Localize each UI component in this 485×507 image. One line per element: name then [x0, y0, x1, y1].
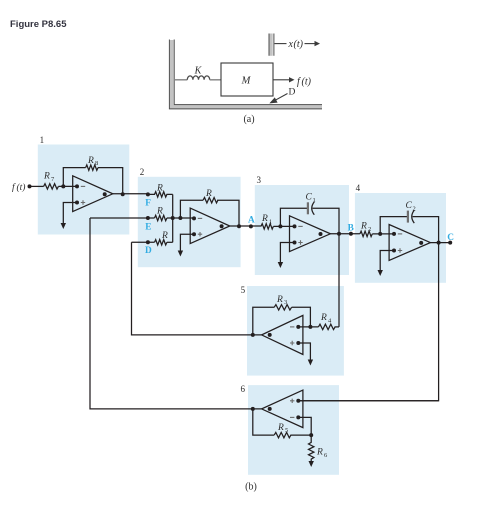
- wire R4 to node B vertical: [335, 326, 340, 328]
- svg-text:R: R: [161, 231, 168, 241]
- svg-text:B: B: [348, 224, 354, 234]
- svg-text:D: D: [145, 246, 152, 256]
- U2 output junction: [237, 224, 241, 228]
- wire output 1 to node F: [113, 193, 148, 195]
- svg-text:M: M: [241, 76, 252, 87]
- wire output 6 to node E: [90, 218, 262, 409]
- highlight box 4: [355, 193, 446, 283]
- op-amp U3 triangle: [290, 216, 331, 252]
- wire node C down and left to op-amp 6: [298, 243, 438, 401]
- svg-text:(t): (t): [17, 182, 26, 193]
- svg-text:f: f: [12, 182, 16, 193]
- resistor R6 vertical: [309, 435, 314, 461]
- feedback junction 2: [178, 216, 182, 220]
- U5 minus: [290, 326, 294, 328]
- U5 output pin dot: [268, 333, 272, 337]
- svg-text:(t): (t): [294, 39, 304, 50]
- wire output 4 to node C: [430, 242, 450, 244]
- svg-text:R: R: [205, 189, 212, 199]
- op-amp U2 triangle: [190, 208, 230, 244]
- U2 minus: [198, 217, 202, 219]
- ground arrow 5: [308, 360, 313, 366]
- feedback wire with R8: [63, 168, 85, 187]
- svg-text:3: 3: [257, 175, 262, 185]
- wire node B down to R4 row: [338, 234, 340, 327]
- resistor R (F row): [148, 192, 173, 197]
- ground arrow 3: [278, 262, 283, 268]
- svg-text:(a): (a): [243, 114, 254, 125]
- svg-text:1: 1: [269, 219, 272, 226]
- U1 noninverting pin dot: [75, 201, 79, 205]
- op-amp U4 triangle: [389, 225, 430, 261]
- wire feedback to output 2: [217, 200, 239, 226]
- x(t) lead line: [275, 43, 287, 45]
- wire noninverting 4 to ground: [380, 251, 394, 272]
- wire D row input: [132, 241, 155, 243]
- U3 plus: [298, 240, 302, 244]
- U6 noninverting pin dot: [296, 399, 300, 403]
- highlight box 2: [138, 177, 241, 267]
- svg-text:(b): (b): [245, 482, 257, 493]
- capacitor C2 right plate: [412, 210, 415, 223]
- U1 output junction: [121, 192, 125, 196]
- wire inverting 5 to R4: [298, 326, 318, 328]
- U4 inverting pin dot: [392, 232, 396, 236]
- wire C2 to output vertical: [413, 217, 439, 243]
- node A dot: [249, 224, 253, 228]
- svg-text:R: R: [360, 222, 367, 232]
- wire noninverting 2 to ground: [180, 234, 194, 251]
- resistor R1: [261, 224, 273, 229]
- wire R1 to inverting input: [273, 225, 294, 227]
- U1 inverting pin dot: [75, 184, 79, 188]
- spring K coil: [187, 76, 209, 80]
- svg-text:R: R: [156, 184, 163, 194]
- wire R3 to output 5: [253, 307, 274, 335]
- svg-text:R: R: [276, 295, 283, 305]
- feedback wire to capacitor C2: [380, 217, 407, 234]
- junction R2/C2: [378, 232, 382, 236]
- resistor R4: [318, 324, 335, 329]
- wall and floor (gray band): [172, 40, 322, 107]
- resistor R (E row): [155, 215, 167, 220]
- U5 noninverting pin dot: [296, 341, 300, 345]
- U1 output pin dot: [103, 192, 107, 196]
- svg-text:R: R: [277, 423, 284, 433]
- wire R8 to output: [98, 168, 123, 195]
- wire f(t) to R7: [30, 185, 44, 187]
- U2 noninverting pin dot: [192, 232, 196, 236]
- resistor R (D row): [155, 240, 167, 245]
- capacitor C2 left plate: [407, 211, 409, 223]
- U4 output junction: [437, 241, 441, 245]
- spring K wire left: [175, 79, 187, 81]
- damper D pointer arrow: [274, 94, 288, 102]
- resistor R3: [274, 305, 291, 310]
- U2 inverting pin dot: [192, 216, 196, 220]
- wire noninverting input to ground: [63, 203, 77, 225]
- U6 plus: [290, 399, 294, 403]
- node E dot: [146, 216, 150, 220]
- U2 plus: [198, 232, 202, 236]
- op-amp U1 triangle: [73, 176, 113, 212]
- svg-text:C: C: [306, 193, 313, 203]
- ground arrow 6: [309, 461, 314, 467]
- wire R7 to inverting input: [58, 185, 77, 187]
- wire R2 to inverting input: [372, 233, 394, 235]
- wall and floor (inner line): [174, 40, 322, 105]
- wall and floor (outer line): [169, 40, 322, 109]
- svg-text:D: D: [289, 88, 296, 98]
- svg-text:R: R: [87, 156, 94, 166]
- wire output 3 to node B and R2: [330, 233, 360, 235]
- capacitor C1 right plate: [312, 202, 315, 215]
- op-amp U5 triangle: [262, 315, 303, 354]
- U5 inverting pin dot: [296, 325, 300, 329]
- U1 plus: [81, 200, 85, 204]
- capacitor C1 left plate: [307, 202, 309, 214]
- U4 minus: [398, 233, 402, 235]
- U5 output junction: [251, 333, 255, 337]
- svg-text:C: C: [406, 201, 413, 211]
- summing junction dot: [171, 216, 175, 220]
- node f(t) dot: [28, 184, 32, 188]
- wire output 2 to node A and R1: [230, 225, 261, 227]
- mass M box: [221, 63, 273, 96]
- wire D row to summing vertical: [167, 241, 173, 243]
- feedback wire to capacitor C1: [280, 208, 307, 226]
- U4 noninverting pin dot: [392, 249, 396, 253]
- wire noninverting 6 from node C: [298, 400, 438, 402]
- U2 output pin dot: [220, 224, 224, 228]
- svg-text:4: 4: [356, 183, 361, 193]
- feedback wire with R3: [292, 307, 311, 327]
- svg-text:R: R: [316, 448, 323, 458]
- svg-text:C: C: [447, 233, 454, 243]
- svg-text:K: K: [194, 66, 203, 77]
- U3 inverting pin dot: [293, 224, 297, 228]
- wire noninverting 3 to ground: [280, 243, 294, 264]
- svg-text:2: 2: [140, 167, 145, 177]
- svg-text:1: 1: [313, 197, 316, 204]
- svg-text:5: 5: [241, 285, 246, 295]
- wire R5 to junction: [290, 434, 311, 436]
- junction R7/R8: [61, 184, 65, 188]
- ground arrow 4: [378, 270, 383, 276]
- svg-text:E: E: [145, 222, 151, 232]
- svg-text:R: R: [261, 214, 268, 224]
- resistor R5: [274, 432, 291, 437]
- svg-text:f: f: [297, 77, 301, 88]
- summing junction vertical wire: [172, 194, 174, 242]
- resistor R (feedback 2): [203, 198, 218, 203]
- wire inverting 6 down to R5/R6 junction: [298, 417, 311, 435]
- junction R5/R6: [309, 433, 313, 437]
- wire E row input: [90, 217, 155, 219]
- wire output 5 to node D: [132, 242, 262, 335]
- U6 minus: [290, 416, 294, 418]
- U6 output pin dot: [268, 407, 272, 411]
- U3 output pin dot: [319, 232, 323, 236]
- highlight box 6: [248, 385, 339, 475]
- svg-text:A: A: [248, 215, 255, 225]
- op-amp U6 triangle: [262, 390, 303, 428]
- highlight box 1: [38, 145, 130, 235]
- U1 minus: [81, 185, 85, 187]
- highlight box 3: [255, 185, 349, 275]
- svg-text:Figure P8.65: Figure P8.65: [10, 19, 67, 30]
- svg-text:R: R: [43, 172, 50, 182]
- U6 inverting pin dot: [296, 415, 300, 419]
- resistor R2: [360, 231, 372, 236]
- svg-text:(t): (t): [302, 77, 312, 88]
- svg-text:1: 1: [40, 135, 45, 145]
- svg-text:R: R: [320, 313, 327, 323]
- svg-text:6: 6: [241, 384, 246, 394]
- feedback wire with R: [180, 200, 203, 218]
- highlight box 5: [247, 286, 344, 376]
- wire output 6 down to R5: [253, 409, 274, 435]
- f(t) arrow: [274, 79, 290, 81]
- svg-text:2: 2: [368, 226, 371, 233]
- U3 output junction: [337, 232, 341, 236]
- node D dot: [146, 240, 150, 244]
- node F dot: [146, 192, 150, 196]
- svg-text:3: 3: [284, 299, 287, 306]
- wire C1 to output vertical: [313, 208, 339, 234]
- node C dot: [448, 241, 452, 245]
- U6 output junction: [251, 407, 255, 411]
- ground arrow 2: [178, 251, 183, 257]
- U5 plus: [290, 341, 294, 345]
- svg-text:F: F: [145, 198, 151, 208]
- ground arrow 1: [61, 223, 66, 229]
- U5 feedback junction: [308, 325, 312, 329]
- op-amp input polarity signs: [81, 186, 402, 417]
- spring K wire right: [210, 79, 221, 81]
- resistor R8: [86, 165, 98, 170]
- svg-text:8: 8: [95, 160, 98, 167]
- resistor R7: [44, 184, 59, 189]
- U3 minus: [298, 225, 302, 227]
- U3 noninverting pin dot: [293, 241, 297, 245]
- x(t) arrow: [305, 43, 315, 45]
- svg-text:2: 2: [413, 206, 416, 213]
- x(t) reference post: [270, 34, 273, 56]
- wire noninverting 5 to ground: [298, 343, 310, 361]
- junction R1/C1: [278, 224, 282, 228]
- svg-text:R: R: [156, 207, 163, 217]
- U4 output pin dot: [419, 241, 423, 245]
- U4 plus: [398, 248, 402, 252]
- svg-text:5: 5: [285, 427, 288, 434]
- wire E row to inverting input: [167, 217, 194, 219]
- node B dot: [349, 232, 353, 236]
